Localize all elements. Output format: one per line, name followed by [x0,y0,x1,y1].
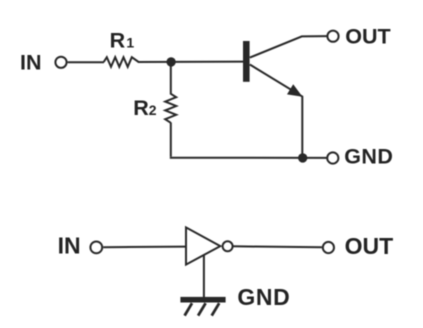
svg-text:IN: IN [20,50,42,74]
svg-text:1: 1 [126,35,134,51]
svg-text:OUT: OUT [345,24,390,48]
svg-text:2: 2 [149,102,157,118]
svg-text:IN: IN [58,232,81,258]
svg-text:R: R [110,29,126,53]
svg-text:GND: GND [344,145,393,169]
svg-text:OUT: OUT [345,233,394,259]
svg-text:GND: GND [237,284,290,310]
svg-text:R: R [133,96,149,120]
